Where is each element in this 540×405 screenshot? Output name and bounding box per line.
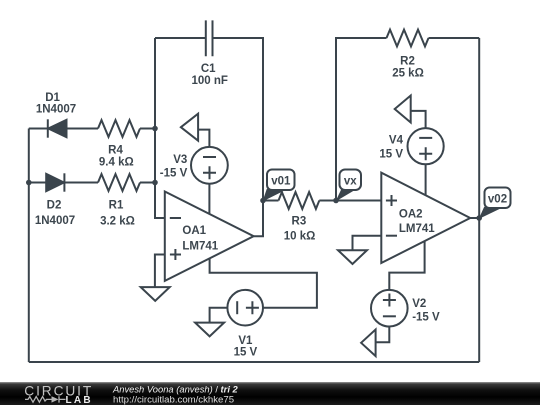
svg-text:9.4 kΩ: 9.4 kΩ	[99, 157, 134, 169]
svg-text:v02: v02	[488, 194, 507, 206]
voltage source V3	[191, 147, 228, 184]
junction D2 row at left rail	[26, 180, 32, 186]
svg-text:V1: V1	[238, 335, 253, 347]
wire V4 to OA2 V+	[425, 164, 427, 195]
svg-text:v01: v01	[271, 176, 291, 188]
wire V2 minus to arrow	[376, 327, 390, 343]
ground V1	[195, 323, 224, 337]
svg-text:25 kΩ: 25 kΩ	[392, 68, 424, 80]
wire mid rail to OA1 inverting input	[155, 38, 165, 218]
node v02 flag	[479, 188, 511, 220]
wire C1 right feedback to OA1 output	[213, 38, 264, 236]
wire OA2 inverting input to ground	[353, 236, 382, 251]
wire R3 row	[263, 200, 381, 202]
ground OA1	[141, 287, 170, 301]
node v01 junction	[260, 198, 266, 204]
resistor R1	[98, 174, 140, 191]
capacitor C1	[206, 20, 213, 56]
svg-text:10 kΩ: 10 kΩ	[284, 231, 316, 243]
node v02 junction	[476, 215, 482, 221]
voltage source V2	[371, 290, 408, 327]
svg-text:Anvesh Voona (anvesh) / tri 2: Anvesh Voona (anvesh) / tri 2	[112, 383, 239, 394]
svg-text:LAB: LAB	[66, 395, 93, 405]
wire bottom rail	[29, 361, 479, 363]
footer logo glyph	[25, 396, 66, 402]
svg-text:V2: V2	[412, 298, 426, 310]
voltage source V4	[408, 128, 444, 164]
svg-text:1N4007: 1N4007	[36, 104, 76, 116]
wire R2 right	[429, 37, 480, 39]
wire OA2 V- to V2	[389, 241, 424, 290]
svg-text:100 nF: 100 nF	[191, 75, 227, 87]
resistor R2	[387, 30, 429, 47]
svg-text:-15 V: -15 V	[412, 312, 440, 324]
svg-text:15 V: 15 V	[234, 347, 258, 359]
node vx flag	[336, 170, 362, 202]
wire C1 left	[155, 37, 206, 39]
svg-text:V3: V3	[173, 154, 187, 166]
wire right rail	[478, 38, 480, 362]
wire V3 to OA1 V+	[208, 184, 210, 215]
wire R2 box left	[336, 38, 387, 201]
svg-text:D2: D2	[47, 200, 62, 212]
svg-text:R1: R1	[109, 200, 124, 212]
voltage source V1	[227, 290, 263, 326]
svg-text:R2: R2	[400, 56, 415, 68]
svg-text:R4: R4	[108, 145, 123, 157]
arrow V4	[395, 96, 411, 123]
wire OA2 output	[470, 217, 479, 219]
wire V3 arrow	[198, 130, 209, 147]
op-amp OA2	[381, 173, 470, 263]
arrow V2	[361, 330, 376, 357]
node vx junction	[333, 198, 339, 204]
svg-text:1N4007: 1N4007	[35, 215, 75, 227]
wire D1 row	[29, 128, 155, 130]
svg-text:OA2: OA2	[399, 209, 423, 221]
node v01 flag	[263, 170, 295, 202]
svg-text:LM741: LM741	[399, 223, 435, 235]
svg-text:-15 V: -15 V	[160, 167, 188, 179]
svg-text:3.2 kΩ: 3.2 kΩ	[100, 216, 135, 228]
svg-text:LM741: LM741	[182, 241, 218, 253]
resistor R3	[279, 192, 320, 209]
svg-text:R3: R3	[292, 216, 307, 228]
wire V1 minus to ground	[210, 308, 228, 323]
svg-text:15 V: 15 V	[379, 149, 403, 161]
svg-text:http://circuitlab.com/ckhke75: http://circuitlab.com/ckhke75	[113, 395, 234, 405]
footer bar	[0, 382, 540, 405]
diode D2	[46, 173, 64, 191]
wire OA1 noninverting input to ground	[155, 255, 165, 288]
svg-text:OA1: OA1	[182, 225, 206, 237]
svg-text:vx: vx	[344, 176, 357, 188]
svg-text:V4: V4	[389, 135, 404, 147]
wire D2 row	[29, 182, 155, 184]
ground OA2	[338, 250, 367, 264]
wire left rail	[28, 129, 30, 363]
op-amp OA1	[165, 192, 254, 281]
diode D1	[48, 119, 67, 137]
junction D1-R4 row at mid rail	[152, 126, 158, 132]
arrow V3	[181, 114, 198, 141]
wire V4 arrow	[411, 111, 426, 128]
svg-text:D1: D1	[45, 92, 60, 104]
wire OA1 V- to V1 plus	[210, 258, 317, 307]
resistor R4	[98, 120, 140, 137]
svg-text:C1: C1	[201, 63, 216, 75]
junction D2-R1 row at mid rail	[152, 180, 158, 186]
footer logo and text	[0, 381, 540, 405]
